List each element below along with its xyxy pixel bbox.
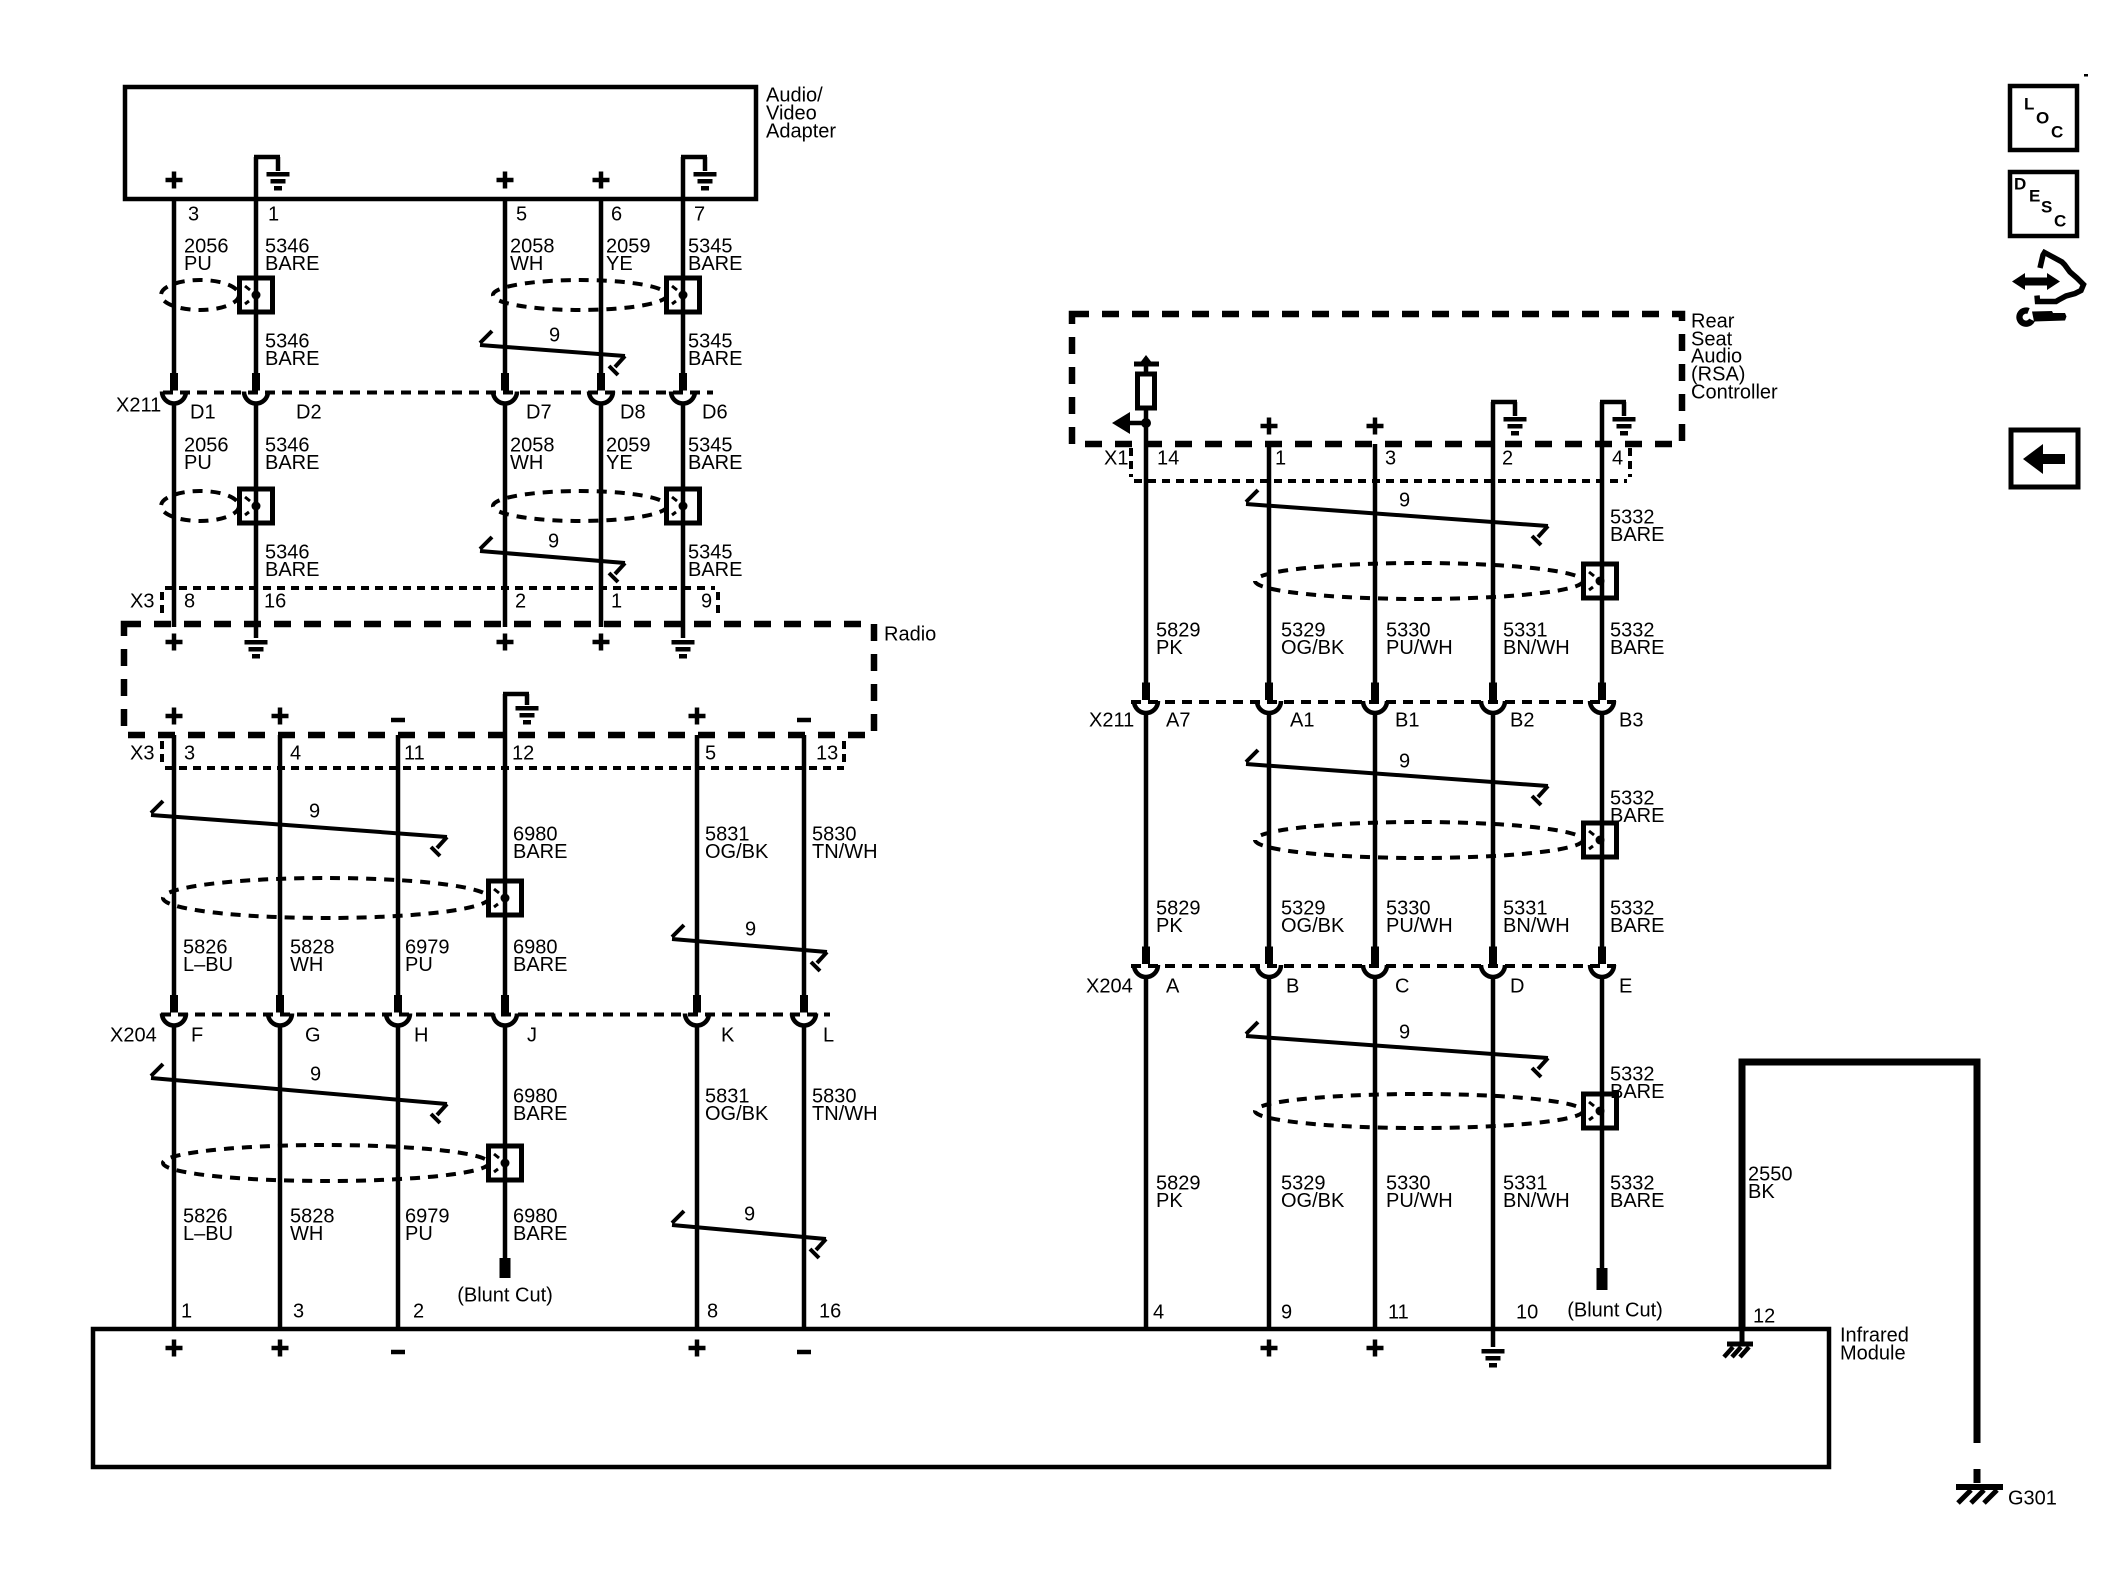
svg-text:BARE: BARE <box>1610 1190 1664 1212</box>
svg-text:E: E <box>1619 976 1632 998</box>
svg-text:X211: X211 <box>1089 710 1134 732</box>
svg-text:Adapter: Adapter <box>766 121 836 143</box>
wire 5345 BARE lower <box>681 404 686 638</box>
svg-text:WH: WH <box>510 253 543 275</box>
shield drain box on 5332 (3) <box>1584 1094 1617 1128</box>
svg-text:BARE: BARE <box>1610 524 1664 546</box>
svg-text:L–BU: L–BU <box>183 954 233 976</box>
svg-text:BARE: BARE <box>513 1103 567 1125</box>
connector X211 pin D6 <box>679 373 687 391</box>
connector X211 pin B3 <box>1598 683 1606 701</box>
twisted pair symbol 9 (KL upper) <box>672 939 827 952</box>
twisted pair symbol 9 (row1) <box>480 345 625 356</box>
twisted pair symbol 9 (right 2) <box>1246 764 1548 786</box>
wire 5345 BARE upper <box>681 199 686 374</box>
svg-text:BN/WH: BN/WH <box>1503 637 1570 659</box>
svg-text:H: H <box>414 1025 428 1047</box>
svg-text:2: 2 <box>1502 448 1513 470</box>
svg-text:13: 13 <box>816 743 838 765</box>
connector X204 right pin E <box>1598 947 1606 965</box>
stray mark top right <box>2084 74 2088 77</box>
svg-text:BARE: BARE <box>513 1223 567 1245</box>
svg-text:8: 8 <box>707 1301 718 1323</box>
svg-text:D: D <box>1510 976 1524 998</box>
svg-text:L–BU: L–BU <box>183 1223 233 1245</box>
svg-text:YE: YE <box>606 452 633 474</box>
svg-text:9: 9 <box>1399 1022 1410 1044</box>
wire 5829 PK middle <box>1144 713 1149 950</box>
svg-text:A7: A7 <box>1166 710 1190 732</box>
svg-text:5: 5 <box>516 204 527 226</box>
icon back arrow box <box>2011 430 2078 487</box>
svg-text:16: 16 <box>264 591 286 613</box>
svg-text:9: 9 <box>744 1204 755 1226</box>
svg-text:BN/WH: BN/WH <box>1503 915 1570 937</box>
svg-text:X3: X3 <box>130 591 154 613</box>
svg-text:(Blunt Cut): (Blunt Cut) <box>457 1285 553 1307</box>
svg-text:O: O <box>2036 108 2049 127</box>
icon tools outline <box>2037 253 2084 302</box>
svg-text:K: K <box>721 1025 735 1047</box>
connector X211 pin D2 <box>252 373 260 391</box>
svg-text:16: 16 <box>819 1301 841 1323</box>
svg-text:12: 12 <box>1753 1306 1775 1328</box>
wire 5828 WH upper <box>278 735 283 996</box>
polarity + pin 5 A/V <box>497 178 514 183</box>
svg-text:G301: G301 <box>2008 1488 2057 1510</box>
polarity - radio pin 13 <box>797 718 811 723</box>
svg-text:14: 14 <box>1157 448 1179 470</box>
wire 5831 OG/BK upper <box>695 735 700 996</box>
svg-text:PU: PU <box>184 253 212 275</box>
svg-text:X204: X204 <box>1086 976 1133 998</box>
svg-text:1: 1 <box>268 204 279 226</box>
svg-text:PK: PK <box>1156 915 1183 937</box>
shield drain box on 5332 (1) <box>1584 564 1617 598</box>
svg-text:3: 3 <box>184 743 195 765</box>
shield ellipse wires 2058/2059 (row2) <box>493 491 667 521</box>
polarity - radio pin 11 <box>391 718 405 723</box>
svg-text:5: 5 <box>705 743 716 765</box>
shield ellipse right (1) <box>1255 563 1583 599</box>
ground symbol inside radio (pin 12) <box>503 694 508 735</box>
connector X204 left dashed line <box>161 1013 830 1017</box>
svg-text:PU: PU <box>405 1223 433 1245</box>
svg-text:2: 2 <box>515 591 526 613</box>
connector X204 pin F <box>170 995 178 1013</box>
svg-text:TN/WH: TN/WH <box>812 1103 878 1125</box>
connector X204 pin K <box>693 995 701 1013</box>
svg-text:B: B <box>1286 976 1299 998</box>
icon tools double arrow <box>2022 278 2050 286</box>
twisted pair symbol 9 (FGH lower) <box>151 1078 447 1104</box>
svg-text:OG/BK: OG/BK <box>1281 1190 1345 1212</box>
component Audio/Video Adapter box <box>125 87 756 199</box>
svg-text:S: S <box>2041 197 2052 216</box>
svg-text:BK: BK <box>1748 1181 1775 1203</box>
svg-text:9: 9 <box>309 801 320 823</box>
wire 5830 TN/WH upper <box>802 735 807 996</box>
polarity + module pin 8 <box>689 1346 706 1351</box>
connector X3 bottom right tick <box>842 741 846 764</box>
wire 5331 BN/WH upper <box>1491 444 1496 684</box>
blunt cut marker 6980 <box>500 1258 511 1278</box>
wire 5332 BARE upper <box>1600 444 1605 684</box>
shield ellipse right (3) <box>1255 1094 1583 1128</box>
wire 6980 BARE lower <box>503 1026 508 1258</box>
svg-text:A1: A1 <box>1290 710 1314 732</box>
wire 5830 TN/WH lower <box>802 1026 807 1329</box>
wire 6980 BARE upper <box>503 735 508 996</box>
svg-text:BARE: BARE <box>1610 915 1664 937</box>
connector X204 right pin C <box>1371 947 1379 965</box>
svg-text:D: D <box>2014 174 2026 193</box>
shield drain box on 5346 (row2) <box>240 489 273 523</box>
connector X211 pin D1 <box>170 373 178 391</box>
svg-text:X204: X204 <box>110 1025 157 1047</box>
wire 5331 BN/WH lower <box>1491 977 1496 1347</box>
svg-text:OG/BK: OG/BK <box>705 841 769 863</box>
ground symbol inside RSA (pin 4) <box>1600 402 1605 444</box>
wire 5332 BARE lower <box>1600 977 1605 1268</box>
svg-text:D8: D8 <box>620 402 646 424</box>
svg-text:4: 4 <box>290 743 301 765</box>
wire 5826 L-BU lower <box>172 1026 177 1329</box>
twisted pair symbol 9 (row2) <box>480 551 625 563</box>
wire 5332 BARE middle <box>1600 713 1605 950</box>
connector X211 pin A7 <box>1142 683 1150 701</box>
connector X204 pin L <box>800 995 808 1013</box>
wire 5329 OG/BK middle <box>1267 713 1272 950</box>
svg-text:9: 9 <box>1399 751 1410 773</box>
connector X1 right tick <box>1628 448 1632 477</box>
wire 5346 BARE lower <box>254 404 259 638</box>
polarity + module pin 11 <box>1367 1346 1384 1351</box>
svg-text:D7: D7 <box>526 402 552 424</box>
svg-text:D1: D1 <box>190 402 216 424</box>
svg-text:WH: WH <box>290 954 323 976</box>
svg-text:11: 11 <box>1388 1302 1409 1324</box>
connector X211 pin D8 <box>597 373 605 391</box>
wire 2056 PU upper <box>172 199 177 374</box>
svg-text:BARE: BARE <box>265 348 319 370</box>
wire 5329 OG/BK lower <box>1267 977 1272 1329</box>
wire 6979 PU lower <box>396 1026 401 1329</box>
svg-text:8: 8 <box>184 591 195 613</box>
svg-text:9: 9 <box>310 1064 321 1086</box>
svg-text:OG/BK: OG/BK <box>705 1103 769 1125</box>
svg-text:BN/WH: BN/WH <box>1503 1190 1570 1212</box>
svg-text:3: 3 <box>293 1301 304 1323</box>
svg-text:D2: D2 <box>296 402 322 424</box>
twisted pair symbol 9 (KL lower) <box>672 1225 826 1239</box>
svg-text:L: L <box>2024 94 2034 113</box>
component Rear Seat Audio (RSA) Controller box <box>1072 314 1682 444</box>
svg-text:BARE: BARE <box>688 253 742 275</box>
wire 5828 WH lower <box>278 1026 283 1329</box>
polarity + radio pin 2 <box>497 640 514 645</box>
polarity + RSA pin 1 <box>1261 424 1278 429</box>
ground symbol inside A/V (pin 1) <box>254 157 259 199</box>
polarity + radio pin 4 <box>272 714 289 719</box>
svg-text:BARE: BARE <box>688 452 742 474</box>
svg-text:A: A <box>1166 976 1180 998</box>
polarity + pin 3 A/V <box>166 178 183 183</box>
component Infrared Module box <box>93 1329 1829 1467</box>
svg-text:OG/BK: OG/BK <box>1281 915 1345 937</box>
connector X1 dashed line <box>1134 479 1627 483</box>
polarity + radio pin 3 <box>166 714 183 719</box>
svg-text:1: 1 <box>1275 448 1286 470</box>
connector X211 pin B1 <box>1371 683 1379 701</box>
antenna element symbol inside RSA <box>1134 362 1159 367</box>
polarity + radio pin 8 <box>166 640 183 645</box>
twisted pair symbol 9 (FGH upper) <box>151 815 447 837</box>
shield ellipse right (2) <box>1255 822 1583 858</box>
shield ellipse wires 2056 (row2) <box>161 491 239 521</box>
connector X211 right dashed line <box>1131 700 1616 704</box>
wire 5330 PU/WH middle <box>1373 713 1378 950</box>
svg-text:BARE: BARE <box>688 348 742 370</box>
svg-text:C: C <box>2051 122 2063 141</box>
svg-text:7: 7 <box>694 204 705 226</box>
icon LOC box <box>2010 86 2077 150</box>
svg-text:Module: Module <box>1840 1343 1906 1365</box>
svg-text:9: 9 <box>701 591 712 613</box>
svg-text:BARE: BARE <box>688 559 742 581</box>
svg-text:PU: PU <box>184 452 212 474</box>
icon DESC box <box>2010 172 2077 236</box>
polarity + RSA pin 3 <box>1367 424 1384 429</box>
svg-text:J: J <box>527 1025 537 1047</box>
svg-text:4: 4 <box>1153 1302 1164 1324</box>
connector X3 (radio bottom) dashed line <box>165 766 844 770</box>
connector X204 right pin D <box>1489 947 1497 965</box>
twisted pair symbol 9 (right 3) <box>1246 1036 1548 1058</box>
shield drain box on 5345 (row2) <box>667 489 700 523</box>
svg-text:9: 9 <box>548 531 559 553</box>
shield drain box on 6980 (lower) <box>489 1146 522 1180</box>
shield drain box on 5346 (row1) <box>240 278 273 312</box>
svg-text:YE: YE <box>606 253 633 275</box>
svg-text:PU/WH: PU/WH <box>1386 1190 1453 1212</box>
polarity + module pin 9 <box>1261 1346 1278 1351</box>
shield ellipse FGH (upper) <box>163 878 489 918</box>
svg-text:B2: B2 <box>1510 710 1534 732</box>
svg-text:1: 1 <box>611 591 622 613</box>
svg-text:B3: B3 <box>1619 710 1643 732</box>
chassis ground inside module (pin 12) <box>1740 1329 1745 1343</box>
svg-text:X1: X1 <box>1104 448 1128 470</box>
signal arrow inside RSA <box>1130 421 1146 426</box>
connector X204 right pin A <box>1142 947 1150 965</box>
wire 5829 PK upper <box>1144 444 1149 684</box>
connector X1 left tick <box>1129 448 1133 477</box>
svg-text:PU: PU <box>405 954 433 976</box>
svg-text:2: 2 <box>413 1301 424 1323</box>
polarity - module pin 16 <box>797 1350 811 1355</box>
svg-text:BARE: BARE <box>513 841 567 863</box>
component Radio box <box>124 624 874 735</box>
svg-text:BARE: BARE <box>265 452 319 474</box>
svg-text:3: 3 <box>188 204 199 226</box>
wire 6979 PU upper <box>396 735 401 996</box>
wire 2059 YE upper <box>599 199 604 374</box>
polarity + module pin 3 <box>272 1346 289 1351</box>
polarity + radio pin 1 <box>593 640 610 645</box>
blunt cut marker 5332 <box>1597 1268 1608 1290</box>
svg-text:C: C <box>2054 211 2066 230</box>
wire 2056 PU lower <box>172 404 177 627</box>
svg-text:BARE: BARE <box>1610 637 1664 659</box>
svg-text:PK: PK <box>1156 1190 1183 1212</box>
svg-text:BARE: BARE <box>513 954 567 976</box>
svg-text:9: 9 <box>1399 490 1410 512</box>
svg-text:Controller: Controller <box>1691 382 1778 404</box>
svg-text:BARE: BARE <box>265 559 319 581</box>
svg-text:Radio: Radio <box>884 624 936 646</box>
svg-text:11: 11 <box>404 743 425 765</box>
polarity + module pin 1 <box>166 1346 183 1351</box>
connector X204 right dashed line <box>1131 964 1616 968</box>
connector X211 pin B2 <box>1489 683 1497 701</box>
svg-text:G: G <box>305 1025 321 1047</box>
wire 5826 L-BU upper <box>172 735 177 996</box>
connector X3 bottom left tick <box>160 741 164 764</box>
wire 2550 BK <box>1742 1062 1977 1417</box>
ground symbol inside RSA (pin 2) <box>1491 402 1496 444</box>
wire 2059 YE lower <box>599 404 604 627</box>
wire 2058 WH upper <box>503 199 508 374</box>
svg-text:C: C <box>1395 976 1409 998</box>
svg-text:PK: PK <box>1156 637 1183 659</box>
svg-text:WH: WH <box>290 1223 323 1245</box>
shield drain box on 5332 (2) <box>1584 823 1617 857</box>
shield ellipse wires 2056 (row1) <box>161 280 239 310</box>
wire 5829 PK lower <box>1144 977 1149 1329</box>
wire 2550 BK dashed tail <box>1974 1417 1981 1483</box>
wire 5346 BARE upper <box>254 199 259 374</box>
svg-text:12: 12 <box>512 743 534 765</box>
wire 5330 PU/WH lower <box>1373 977 1378 1329</box>
wire 5831 OG/BK lower <box>695 1026 700 1329</box>
connector X3 top left tick <box>160 592 164 616</box>
svg-text:PU/WH: PU/WH <box>1386 637 1453 659</box>
svg-text:TN/WH: TN/WH <box>812 841 878 863</box>
wire 5330 PU/WH upper <box>1373 444 1378 684</box>
svg-text:1: 1 <box>181 1301 192 1323</box>
ground symbol inside A/V (pin 7) <box>681 157 686 199</box>
connector X3 top right tick <box>716 592 720 616</box>
shield ellipse wires 2058/2059 (row1) <box>493 280 667 310</box>
wire 5331 BN/WH middle <box>1491 713 1496 950</box>
connector X211 pin D7 <box>501 373 509 391</box>
shield drain box on 6980 (upper) <box>489 881 522 915</box>
connector X204 pin J <box>501 995 509 1013</box>
icon tools wrench <box>2032 311 2067 322</box>
svg-text:F: F <box>191 1025 203 1047</box>
svg-text:X211: X211 <box>116 395 161 417</box>
svg-text:WH: WH <box>510 452 543 474</box>
svg-text:PU/WH: PU/WH <box>1386 915 1453 937</box>
svg-text:3: 3 <box>1385 448 1396 470</box>
svg-text:L: L <box>823 1025 834 1047</box>
svg-text:E: E <box>2029 186 2040 205</box>
connector X211 pin A1 <box>1265 683 1273 701</box>
svg-text:X3: X3 <box>130 743 154 765</box>
connector X3 (radio top) dashed line <box>165 586 715 590</box>
svg-text:OG/BK: OG/BK <box>1281 637 1345 659</box>
svg-text:6: 6 <box>611 204 622 226</box>
polarity - module pin 2 <box>391 1350 405 1355</box>
svg-text:9: 9 <box>745 919 756 941</box>
svg-text:10: 10 <box>1516 1302 1538 1324</box>
polarity + radio pin 5 <box>689 714 706 719</box>
connector X211 left dashed line <box>163 391 713 395</box>
shield drain box on 5345 (row1) <box>667 278 700 312</box>
shield ellipse FGH (lower) <box>163 1145 489 1181</box>
wire 2058 WH lower <box>503 404 508 627</box>
connector X204 pin G <box>276 995 284 1013</box>
connector X204 pin H <box>394 995 402 1013</box>
svg-text:BARE: BARE <box>265 253 319 275</box>
svg-text:4: 4 <box>1612 448 1623 470</box>
wire 5329 OG/BK upper <box>1267 444 1272 684</box>
polarity + pin 6 A/V <box>593 178 610 183</box>
svg-text:9: 9 <box>1281 1302 1292 1324</box>
svg-text:B1: B1 <box>1395 710 1419 732</box>
connector X204 right pin B <box>1265 947 1273 965</box>
chassis ground G301 <box>1956 1484 2003 1490</box>
svg-text:9: 9 <box>549 325 560 347</box>
svg-text:D6: D6 <box>702 402 728 424</box>
svg-text:(Blunt Cut): (Blunt Cut) <box>1567 1300 1663 1322</box>
twisted pair symbol 9 (right 1) <box>1246 504 1548 526</box>
